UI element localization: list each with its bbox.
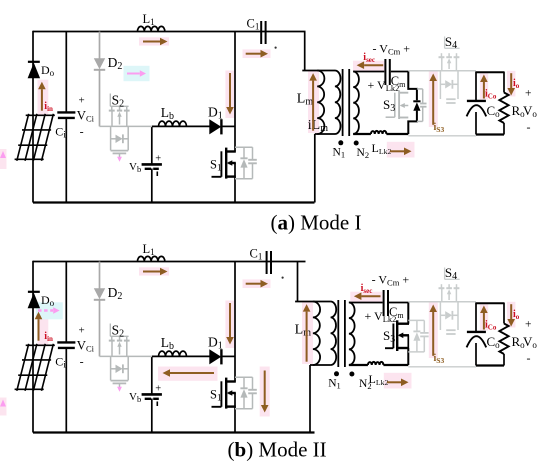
current arrow iS3 xyxy=(432,81,434,125)
diode D2 (inactive) xyxy=(94,262,105,357)
pink arrowhead under S2 xyxy=(117,387,122,392)
node N1 xyxy=(338,140,343,145)
current arrow iLm xyxy=(306,312,308,362)
capacitor Co xyxy=(467,101,487,117)
highlight bands xyxy=(38,80,49,115)
diode D0 xyxy=(28,292,40,308)
label S4 xyxy=(445,265,460,282)
wire bottom rail xyxy=(33,201,315,203)
capacitor C1 xyxy=(267,251,271,274)
svg-text:(a) Mode I: (a) Mode I xyxy=(271,211,362,235)
wire secondary bottom xyxy=(353,133,371,135)
diode D0 xyxy=(28,62,40,78)
wire output bottom xyxy=(476,364,504,366)
current arrow down to D1 xyxy=(229,73,231,107)
PV panel xyxy=(15,114,55,161)
capacitor Cm xyxy=(385,59,389,85)
pink fragment left edge xyxy=(0,149,7,169)
svg-text:(b) Mode II: (b) Mode II xyxy=(228,438,327,462)
wire S1 source to rail xyxy=(234,393,236,433)
wire Vb branch xyxy=(151,356,153,394)
current arrow iLm xyxy=(312,81,314,131)
svg-text:-: - xyxy=(80,125,84,139)
current arrow through LLk2 xyxy=(390,150,404,152)
resistor Ro xyxy=(503,72,505,93)
wire LLk2 to S3 xyxy=(386,133,408,135)
wire output top xyxy=(476,71,504,73)
wire output top xyxy=(476,302,504,304)
label S2 xyxy=(110,93,128,110)
wire Ci branch upper xyxy=(65,262,67,343)
svg-text:-: - xyxy=(527,351,531,365)
wire secondary top xyxy=(353,71,384,73)
wire Lb to D1 xyxy=(152,125,210,127)
current arrow through L1 xyxy=(143,41,160,43)
svg-text:-: - xyxy=(527,120,531,134)
wire left rail xyxy=(32,261,34,433)
wire D1-S1 branch upper xyxy=(234,32,236,152)
current arrow through C1 xyxy=(246,283,261,285)
svg-text:+: + xyxy=(79,94,85,106)
wire LLk2 to S3 xyxy=(383,364,408,366)
wire Vb branch xyxy=(151,126,153,164)
node N2 xyxy=(349,372,354,377)
current arrow iS3 xyxy=(432,312,434,356)
wire primary bottom xyxy=(310,364,331,366)
transistor S1 xyxy=(212,148,236,179)
wire S1 source to rail xyxy=(234,163,236,203)
PV panel xyxy=(15,344,55,391)
switch S4 (inactive) with wire to output xyxy=(408,284,476,334)
S1 body diode and snubber (inactive) xyxy=(235,147,257,179)
wire left rail xyxy=(32,31,34,203)
pink arrow near D2 (inactive path) xyxy=(127,73,140,75)
wire output bottom xyxy=(476,133,504,135)
wire Co branch xyxy=(475,72,477,101)
svg-text:-: - xyxy=(80,355,84,369)
battery Vb xyxy=(142,383,162,406)
capacitor C1 xyxy=(261,21,265,44)
inductor Lb xyxy=(159,121,187,126)
inductor L1 xyxy=(138,26,165,31)
transformer core xyxy=(342,69,344,136)
S1 body diode and snubber (inactive) xyxy=(235,377,257,409)
winding Lm primary xyxy=(313,302,320,366)
current arrow to Vb xyxy=(170,372,214,374)
svg-text:+: + xyxy=(525,319,532,331)
svg-text:+: + xyxy=(155,383,161,394)
wire Ci branch lower xyxy=(65,118,67,203)
wire Co branch xyxy=(475,303,477,332)
wire C1 to transformer xyxy=(297,262,299,302)
current arrow iCo xyxy=(483,82,485,99)
wire secondary bottom xyxy=(349,364,368,366)
label VCi xyxy=(77,324,95,368)
resistor Ro xyxy=(503,303,505,324)
inductor LLk2 xyxy=(371,131,387,134)
current arrow iin xyxy=(38,319,40,341)
winding secondary xyxy=(349,303,355,366)
wire D1-S1 branch upper xyxy=(234,262,236,382)
diode D1 xyxy=(209,119,221,134)
switch S3: body diode conducting xyxy=(408,72,417,135)
speck near C1 xyxy=(275,47,277,49)
label S2 xyxy=(110,323,128,340)
current arrow down S1 branch xyxy=(264,371,266,406)
switch S2 (inactive) xyxy=(100,107,153,159)
node N1 xyxy=(334,371,339,376)
current arrow through LLk2 xyxy=(387,381,401,383)
capacitor Co xyxy=(467,332,487,348)
S3 body diode and snubber (inactive) xyxy=(408,320,428,352)
wire Ci branch lower xyxy=(65,348,67,433)
speck near C1 xyxy=(282,277,284,279)
label VCi xyxy=(77,94,95,138)
wire gray bottom (S3 to output) xyxy=(408,135,476,137)
diode D3 (S3 body) xyxy=(413,101,420,111)
pink dashed arrow near D0 xyxy=(38,309,53,311)
current arrow io xyxy=(510,73,512,88)
diode D1 xyxy=(209,349,221,364)
switch S2 (inactive) xyxy=(100,337,153,389)
wire C1 to transformer xyxy=(304,32,306,71)
wire secondary top xyxy=(349,302,383,304)
winding secondary xyxy=(353,72,359,135)
pink fragment left edge xyxy=(0,398,7,416)
highlight bands xyxy=(38,310,49,345)
svg-text:+: + xyxy=(525,88,532,100)
inductor Lb xyxy=(159,351,187,356)
wire Ci branch upper xyxy=(65,32,67,113)
wire gray bottom (S3 to output) xyxy=(408,366,476,368)
node N2 xyxy=(354,141,359,146)
winding Lm primary xyxy=(317,71,324,135)
inductor L1 xyxy=(138,256,165,261)
diode D2 (inactive) xyxy=(94,32,105,127)
wire primary bottom xyxy=(315,133,335,135)
label S4 xyxy=(445,34,460,51)
svg-text:+: + xyxy=(155,153,161,164)
capacitor Ci xyxy=(57,342,75,348)
current arrow isec xyxy=(361,295,380,297)
current arrow isec xyxy=(364,64,383,66)
switch S4 (inactive) with wire to output xyxy=(408,53,476,103)
inductor LLk2 xyxy=(368,362,384,365)
current arrow io xyxy=(510,304,512,319)
switch S3: MOSFET conducting xyxy=(407,303,409,324)
current arrow down to D1 xyxy=(229,303,231,337)
current arrow iCo xyxy=(483,313,485,330)
wire bottom rail xyxy=(33,431,315,433)
wire Lb to D1 xyxy=(152,355,210,357)
transformer core xyxy=(337,300,339,367)
wire top rail xyxy=(33,261,306,263)
current arrow iin xyxy=(41,89,43,111)
battery Vb xyxy=(142,153,162,176)
capacitor Ci xyxy=(57,112,75,118)
current arrow through L1 xyxy=(143,271,160,273)
current arrow through C1 xyxy=(246,53,261,55)
capacitor Cm xyxy=(384,290,388,316)
wire top rail xyxy=(33,31,306,33)
transistor S1 xyxy=(212,378,236,409)
S3 MOSFET (inactive) xyxy=(386,89,427,122)
pink arrowhead under S2 xyxy=(117,157,122,162)
svg-text:+: + xyxy=(79,324,85,336)
